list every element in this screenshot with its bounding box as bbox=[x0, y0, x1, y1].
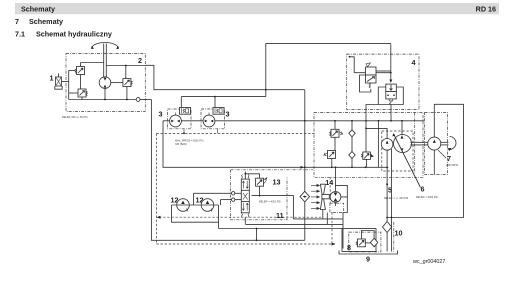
svg-text:4: 4 bbox=[412, 58, 416, 67]
svg-text:345 (BAR): 345 (BAR) bbox=[175, 143, 187, 146]
svg-text:RELIEF = 4351 PSI: RELIEF = 4351 PSI bbox=[259, 200, 281, 203]
svg-text:7: 7 bbox=[447, 154, 451, 163]
svg-text:RD 16: RD 16 bbox=[476, 5, 496, 14]
svg-text:7: 7 bbox=[15, 17, 19, 26]
svg-text:RELIEF 500 +/- 50 PSI: RELIEF 500 +/- 50 PSI bbox=[62, 116, 88, 119]
svg-text:Schemat hydrauliczny: Schemat hydrauliczny bbox=[36, 30, 112, 39]
svg-text:1800 RPM: 1800 RPM bbox=[446, 164, 458, 167]
svg-text:6: 6 bbox=[421, 185, 425, 194]
svg-text:RELIEF = +/- 433 PSI: RELIEF = +/- 433 PSI bbox=[384, 197, 408, 200]
svg-text:Schematy: Schematy bbox=[21, 5, 55, 14]
svg-text:13: 13 bbox=[273, 178, 281, 187]
svg-text:8: 8 bbox=[347, 243, 351, 252]
svg-text:3: 3 bbox=[226, 110, 230, 119]
svg-text:1: 1 bbox=[50, 74, 54, 83]
svg-text:9: 9 bbox=[366, 255, 370, 264]
svg-text:7.1: 7.1 bbox=[15, 30, 25, 39]
svg-text:3: 3 bbox=[159, 110, 163, 119]
svg-text:14: 14 bbox=[325, 178, 333, 187]
svg-text:wc_gr004027: wc_gr004027 bbox=[412, 259, 445, 265]
svg-text:Schematy: Schematy bbox=[29, 17, 63, 26]
svg-text:2: 2 bbox=[138, 56, 142, 65]
svg-text:11: 11 bbox=[276, 211, 284, 220]
svg-text:10: 10 bbox=[395, 229, 403, 238]
svg-text:RELIEF = 4000 PSI: RELIEF = 4000 PSI bbox=[416, 196, 438, 199]
